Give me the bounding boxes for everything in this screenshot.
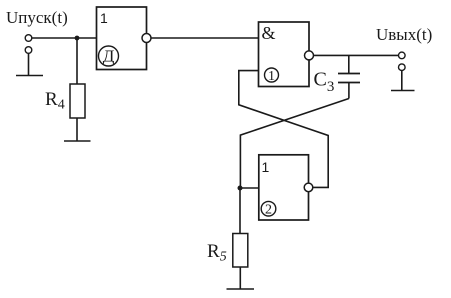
svg-text:1: 1 bbox=[268, 69, 275, 84]
wire junction to gate 2 input bbox=[240, 187, 259, 189]
wire diagonal C3 to left rail bbox=[240, 99, 349, 189]
node junction J1 bbox=[75, 36, 80, 41]
ground below R4 bbox=[64, 140, 91, 142]
svg-text:1: 1 bbox=[100, 10, 108, 26]
svg-text:Д: Д bbox=[103, 47, 115, 66]
symbol circled 2 bbox=[261, 201, 276, 216]
svg-text:Uвых(t): Uвых(t) bbox=[376, 25, 432, 44]
capacitor C3 bottom plate bbox=[338, 82, 360, 84]
node junction J2 bbox=[238, 186, 243, 191]
wire NAND lower input loop bbox=[239, 71, 328, 188]
wire NAND output to terminal bbox=[314, 54, 399, 56]
terminal output Uвых bbox=[399, 52, 406, 59]
symbol circled 1 bbox=[265, 68, 279, 82]
wire junction to R5 bbox=[239, 188, 241, 234]
wire input rail bbox=[32, 37, 97, 39]
inverter gate Д (box) bbox=[97, 7, 147, 70]
inversion bubble of NAND bbox=[305, 51, 314, 60]
svg-text:2: 2 bbox=[265, 203, 272, 218]
wire junction to R4 bbox=[76, 38, 78, 84]
wire C3 bottom stub bbox=[348, 83, 350, 99]
symbol Д circle bbox=[99, 46, 119, 66]
ground right bbox=[391, 90, 415, 92]
wire Д output to NAND input bbox=[151, 37, 259, 39]
wire R4 to ground bbox=[76, 118, 78, 141]
terminal input Uпуск bbox=[25, 35, 32, 42]
inversion bubble of gate 2 bbox=[304, 183, 313, 192]
wire output terminal to ground bbox=[401, 71, 403, 91]
ground below R5 bbox=[227, 288, 255, 290]
NAND gate 1 (box) bbox=[259, 22, 310, 87]
ground left bbox=[16, 75, 43, 77]
terminal output ground-side bbox=[399, 64, 406, 71]
inversion bubble of Д gate bbox=[142, 34, 151, 43]
svg-text:&: & bbox=[262, 23, 276, 43]
svg-text:1: 1 bbox=[262, 159, 270, 175]
terminal ground-side bbox=[25, 47, 32, 54]
resistor R5 bbox=[233, 234, 248, 268]
capacitor C3 top plate bbox=[338, 73, 360, 75]
svg-text:Uпуск(t): Uпуск(t) bbox=[6, 8, 68, 27]
resistor R4 bbox=[70, 84, 85, 118]
wire to capacitor C3 bbox=[348, 55, 350, 73]
wire terminal to ground bbox=[28, 53, 30, 75]
gate 2 (box) bbox=[259, 155, 309, 220]
wire R5 to ground bbox=[239, 267, 241, 289]
